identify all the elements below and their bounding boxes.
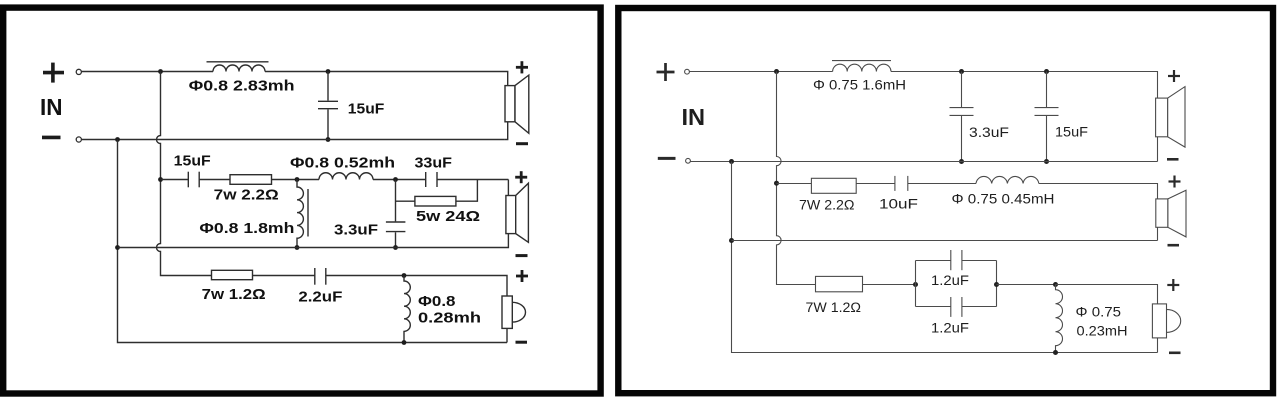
junction node A (bus A top) xyxy=(158,69,163,74)
svg-text:Φ0.8 1.8mh: Φ0.8 1.8mh xyxy=(199,220,294,237)
wire: R4 to capacitor C8 xyxy=(856,183,895,185)
tweeter SPK4 plus sign xyxy=(1168,70,1180,82)
inductor L1 core bar xyxy=(207,61,269,63)
junction node mid branch on bus A xyxy=(158,177,163,182)
capacitor C9 1.2uF plates xyxy=(950,250,952,270)
capacitor C6 3.3uF bottom lead xyxy=(961,116,963,162)
capacitor C5 2.2uF plates xyxy=(314,268,316,285)
mid speaker SPK2 lead xyxy=(507,180,509,196)
svg-text:1.2uF: 1.2uF xyxy=(931,321,969,336)
resistor R1 7w 2.2ohm body xyxy=(230,175,272,185)
inductor L7 0.23mH vertical coil xyxy=(1056,285,1063,353)
svg-text:3.3uF: 3.3uF xyxy=(969,125,1009,140)
wire: R5 to parallel cap block xyxy=(863,284,916,286)
mid speaker SPK2 minus sign xyxy=(516,254,528,257)
capacitor C4 3.3uF plates xyxy=(386,221,406,223)
junction node C4 bottom xyxy=(393,245,398,250)
svg-text:3.3uF: 3.3uF xyxy=(334,222,378,239)
svg-text:7W 1.2Ω: 7W 1.2Ω xyxy=(806,300,862,315)
woofer speaker SPK3 plus sign xyxy=(516,270,528,282)
woofer speaker SPK3 dome xyxy=(512,302,525,322)
junction node bus B top xyxy=(115,137,120,142)
svg-text:IN: IN xyxy=(682,104,706,130)
svg-text:7w 1.2Ω: 7w 1.2Ω xyxy=(202,286,266,303)
junction node C7 top xyxy=(1044,69,1049,74)
wire: bus D vertical xyxy=(732,162,1158,353)
svg-text:15uF: 15uF xyxy=(1055,124,1088,139)
capacitor C7 15uF bottom lead xyxy=(1046,116,1048,162)
junction node mid rail on bus D xyxy=(729,238,734,243)
wire: mid branch start xyxy=(777,183,812,185)
svg-text:0.28mh: 0.28mh xyxy=(418,309,481,326)
wire: R2 right lead up to main wire xyxy=(456,180,478,202)
tweeter speaker SPK4 cone xyxy=(1168,87,1185,148)
mid speaker SPK5 body xyxy=(1156,199,1168,227)
wire: mid section bottom rail (right) xyxy=(732,240,1158,242)
woofer speaker SPK6 bottom lead xyxy=(1157,338,1159,353)
right panel border frame xyxy=(618,8,1273,393)
wire: mid section bottom rail xyxy=(118,234,509,248)
input terminal circle plus xyxy=(76,69,81,74)
junction node L7 top xyxy=(1053,282,1058,287)
wire: mid branch start xyxy=(161,179,189,181)
junction node C6 bottom xyxy=(959,159,964,164)
woofer speaker SPK6 dome xyxy=(1167,309,1181,332)
inductor L4 0.28mh vertical coil xyxy=(404,276,410,343)
resistor R3 7w 1.2ohm body xyxy=(212,270,253,279)
plus input terminal symbol (right) xyxy=(657,63,675,81)
svg-text:15uF: 15uF xyxy=(348,100,385,117)
mid speaker SPK2 cone xyxy=(516,183,529,242)
junction node L4 top xyxy=(402,273,407,278)
wire: L5 to tweeter corner xyxy=(891,72,1158,99)
inductor L5 1.6mH coil xyxy=(833,64,891,71)
parallel capacitor block frame right side xyxy=(996,261,998,307)
capacitor C10 1.2uF plates xyxy=(950,297,952,317)
left panel text labels xyxy=(40,78,481,327)
tweeter speaker SPK1 cone xyxy=(515,75,529,133)
minus input terminal symbol xyxy=(42,136,61,140)
junction node B2 xyxy=(393,177,398,182)
mid SPK5 minus sign xyxy=(1168,244,1180,247)
resistor R4 7W 2.2ohm body xyxy=(811,178,856,193)
capacitor C4 3.3uF bottom lead xyxy=(395,232,397,247)
resistor R5 7W 1.2ohm body xyxy=(816,276,863,291)
junction node cap block right xyxy=(994,282,999,287)
capacitor C8 10uF plates xyxy=(894,176,896,191)
wire: L2 to node B2 xyxy=(373,179,426,181)
input terminal circle plus (right) xyxy=(685,69,690,74)
inductor L6 0.45mH coil xyxy=(976,176,1039,183)
mid speaker SPK2 body xyxy=(506,196,516,234)
capacitor C3 33uF plates xyxy=(425,172,427,187)
svg-text:15uF: 15uF xyxy=(174,153,211,170)
resistor R2 5w 24ohm body xyxy=(415,196,456,206)
woofer speaker SPK3 body xyxy=(502,296,512,328)
woofer SPK6 plus sign xyxy=(1167,279,1179,291)
svg-text:10uF: 10uF xyxy=(879,197,918,212)
svg-text:Φ0.8 0.52mh: Φ0.8 0.52mh xyxy=(290,155,395,172)
svg-text:IN: IN xyxy=(40,94,63,120)
svg-text:0.23mH: 0.23mH xyxy=(1077,324,1128,339)
junction node capacitor C1 top xyxy=(326,69,331,74)
inductor L2 0.52mh coil xyxy=(319,173,373,180)
mid speaker SPK5 bottom lead xyxy=(1157,227,1159,240)
capacitor C10 1.2uF bottom branch wires xyxy=(916,306,951,308)
capacitor C1 15uF top lead xyxy=(327,72,329,101)
wire: resistor R2 left stub xyxy=(396,200,415,202)
tweeter speaker SPK4 bottom lead xyxy=(1157,137,1159,162)
junction node L3 bottom xyxy=(295,245,300,250)
svg-text:33uF: 33uF xyxy=(415,155,453,172)
mid speaker SPK2 plus sign xyxy=(515,171,527,183)
svg-text:2.2uF: 2.2uF xyxy=(298,289,342,306)
capacitor C6 3.3uF plates xyxy=(950,107,974,109)
capacitor C1 15uF bottom lead xyxy=(327,109,329,139)
capacitor C9 1.2uF top branch wires xyxy=(916,260,951,262)
wire: L1 to tweeter corner xyxy=(265,72,508,86)
wire: tweeter bottom lead xyxy=(505,122,508,140)
wire: bus B vertical xyxy=(118,140,508,343)
junction node C6 top xyxy=(959,69,964,74)
tweeter SPK1 plus sign xyxy=(516,61,528,73)
junction node L7 bottom xyxy=(1053,350,1058,355)
wire: bus A vertical with hops xyxy=(157,72,212,276)
wire: bus C vertical with hops xyxy=(777,72,816,285)
inductor L3 1.8mh vertical coil xyxy=(297,180,303,248)
junction node B1 (L3 top) xyxy=(295,177,300,182)
tweeter SPK1 minus sign xyxy=(516,142,528,145)
capacitor C7 15uF plates xyxy=(1035,107,1059,109)
woofer speaker SPK3 bottom lead xyxy=(506,328,508,342)
right panel text labels xyxy=(682,78,1128,339)
tweeter speaker SPK1 body xyxy=(505,86,515,122)
plus input terminal symbol xyxy=(43,63,64,83)
svg-text:Φ 0.75: Φ 0.75 xyxy=(1076,305,1122,320)
woofer speaker SPK3 minus sign xyxy=(516,341,528,344)
junction node L4 bottom xyxy=(402,340,407,345)
wire: plus terminal to inductor L1 xyxy=(82,71,213,73)
tweeter SPK4 minus sign xyxy=(1167,158,1179,161)
capacitor C6 3.3uF top lead xyxy=(961,72,963,108)
junction node C7 bottom xyxy=(1044,159,1049,164)
mid speaker SPK5 cone xyxy=(1168,190,1186,237)
svg-text:Φ0.8: Φ0.8 xyxy=(418,293,456,310)
parallel capacitor block frame left side xyxy=(915,261,917,307)
junction node cap block left xyxy=(913,282,918,287)
wire: C5 to woofer speaker xyxy=(326,276,507,297)
inductor L5 core bar xyxy=(832,60,891,62)
svg-text:Φ0.8 2.83mh: Φ0.8 2.83mh xyxy=(189,78,295,95)
wire: C3 to mid speaker xyxy=(437,179,508,181)
capacitor C2 15uF plates xyxy=(187,172,189,188)
input terminal circle minus xyxy=(76,137,81,142)
capacitor C1 15uF plates xyxy=(318,100,338,102)
woofer SPK6 minus sign xyxy=(1169,351,1181,354)
wire: C2 to resistor R1 xyxy=(199,179,230,181)
wire: cap block to inductor L7 node xyxy=(997,284,1056,286)
left panel border frame xyxy=(3,8,600,394)
inductor L1 2.83mh coil xyxy=(213,65,265,72)
junction node bus C top xyxy=(774,69,779,74)
wire: minus terminal to tweeter bottom xyxy=(82,139,505,141)
junction node mid branch on bus C xyxy=(774,181,779,186)
wire: C8 to inductor L6 xyxy=(908,183,976,185)
wire: L7 node to woofer speaker xyxy=(1056,285,1158,304)
inductor L3 core bar xyxy=(307,189,309,237)
svg-text:1.2uF: 1.2uF xyxy=(931,273,969,288)
capacitor C7 15uF top lead xyxy=(1046,72,1048,108)
wire: plus terminal to inductor L5 xyxy=(689,71,832,73)
capacitor C4 3.3uF top lead xyxy=(395,180,397,222)
woofer speaker SPK6 body xyxy=(1152,304,1166,338)
junction node capacitor C1 bottom xyxy=(326,137,331,142)
mid SPK5 plus sign xyxy=(1169,176,1181,188)
wire: minus terminal to tweeter bottom rail xyxy=(690,161,1157,163)
svg-text:Φ 0.75 0.45mH: Φ 0.75 0.45mH xyxy=(952,192,1055,207)
svg-text:7w 2.2Ω: 7w 2.2Ω xyxy=(214,186,279,203)
tweeter speaker SPK4 body xyxy=(1156,98,1168,137)
wire: R1 to node B1 xyxy=(272,179,320,181)
svg-text:Φ 0.75 1.6mH: Φ 0.75 1.6mH xyxy=(813,78,906,93)
input terminal circle minus (right) xyxy=(686,158,691,163)
wire: L6 to mid speaker xyxy=(1039,184,1158,199)
junction node mid rail on bus B xyxy=(115,245,120,250)
svg-text:5w 24Ω: 5w 24Ω xyxy=(416,208,480,225)
minus input terminal symbol (right) xyxy=(658,157,676,160)
wire: woofer branch from bus A xyxy=(253,275,315,277)
svg-text:7W 2.2Ω: 7W 2.2Ω xyxy=(799,198,855,213)
junction node bus D top xyxy=(729,159,734,164)
